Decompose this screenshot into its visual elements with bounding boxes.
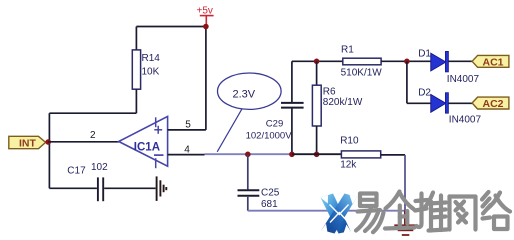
svg-text:12k: 12k: [340, 159, 357, 170]
wire top rail R14 to +5v: [136, 26, 206, 28]
wire down right vertical: [404, 155, 406, 211]
svg-text:10K: 10K: [142, 67, 160, 78]
char qi: [386, 192, 400, 209]
svg-text:4: 4: [184, 144, 190, 155]
svg-text:2: 2: [90, 130, 96, 141]
junction dot D branch: [404, 59, 410, 65]
diode D2: [431, 93, 472, 114]
svg-text:681: 681: [261, 199, 278, 210]
char wang: [447, 197, 451, 230]
resistor R6: [312, 61, 321, 154]
port AC1: [472, 55, 509, 68]
ground (chassis) left: [157, 176, 167, 201]
wire main row to R10: [292, 153, 341, 155]
capacitor C25: [238, 154, 260, 210]
svg-text:R6: R6: [323, 87, 336, 98]
resistor R1: [343, 58, 381, 65]
wire feedback left vertical: [48, 113, 50, 188]
junction dot C29 bottom: [289, 152, 295, 158]
svg-text:102/1000V: 102/1000V: [246, 131, 293, 142]
capacitor C29: [281, 61, 304, 154]
svg-text:IC1A: IC1A: [134, 141, 160, 153]
wire to D2: [407, 102, 431, 104]
svg-text:IN4007: IN4007: [449, 114, 482, 125]
svg-text:2.3V: 2.3V: [233, 88, 256, 100]
resistor R14: [132, 50, 140, 89]
junction dot C25: [245, 152, 251, 158]
svg-text:5: 5: [185, 119, 191, 130]
wire R14 top lead: [135, 27, 137, 51]
diode D1: [431, 51, 472, 72]
wire down to D2: [406, 61, 408, 103]
svg-text:AC1: AC1: [483, 57, 504, 69]
junction dot R6 top: [314, 59, 320, 65]
char yi: [360, 194, 377, 207]
wire bottom to ground: [248, 210, 405, 212]
junction dot at +5v: [203, 24, 209, 30]
svg-text:C29: C29: [266, 119, 283, 130]
watermark text: [356, 192, 510, 233]
svg-text:C25: C25: [261, 187, 280, 198]
svg-text:R14: R14: [142, 53, 161, 64]
svg-text:R1: R1: [341, 45, 354, 56]
annotation 2.3V callout: [217, 73, 281, 152]
svg-text:IN4007: IN4007: [447, 74, 480, 85]
svg-text:D2: D2: [418, 87, 431, 98]
power +5v: [197, 6, 214, 26]
svg-text:INT: INT: [19, 137, 37, 149]
wire top rail (left part): [292, 60, 343, 62]
char luo: [482, 192, 489, 200]
wire rail R1 to D1: [381, 60, 431, 62]
wire feedback horizontal: [49, 112, 136, 114]
svg-text:510K/1W: 510K/1W: [341, 68, 383, 79]
op-amp IC1A: [119, 116, 168, 168]
ground (earth) right: [394, 211, 417, 235]
svg-text:102: 102: [91, 162, 108, 173]
port AC2: [472, 97, 509, 110]
svg-text:820k/1W: 820k/1W: [323, 97, 363, 108]
watermark logo: [321, 194, 358, 234]
resistor R10: [341, 151, 380, 158]
wire +5v rail down to pin 5: [205, 27, 207, 130]
svg-text:R10: R10: [340, 136, 359, 147]
wire pin 4 net (purple segment): [205, 153, 293, 155]
char tui: [417, 194, 422, 228]
wire pin 4 (black segment): [168, 154, 205, 156]
svg-text:C17: C17: [67, 165, 86, 176]
capacitor C17: [49, 177, 155, 201]
wire R10 right lead: [381, 154, 405, 156]
port INT: [9, 136, 46, 149]
junction dot R6 bottom: [314, 152, 320, 158]
wire pin 2: [48, 141, 119, 143]
wire pin 5: [168, 129, 206, 131]
svg-text:AC2: AC2: [483, 98, 504, 110]
wire R14 bottom lead: [135, 89, 137, 113]
junction dot INT node: [45, 139, 51, 145]
svg-text:D1: D1: [418, 48, 431, 59]
